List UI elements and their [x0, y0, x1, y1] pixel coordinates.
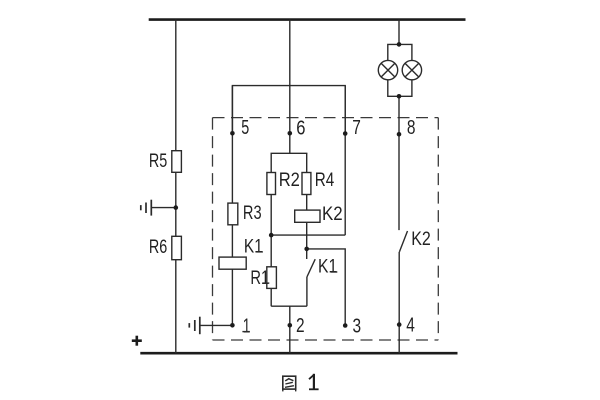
svg-text:K1: K1: [318, 257, 337, 278]
resistor R3: [228, 203, 238, 225]
junction dot R2/R1 node: [269, 233, 274, 238]
wire R2/R1 branch: [270, 153, 272, 306]
caption figure glyph tu: [283, 376, 296, 391]
wire terminal-5 branch down to terminal 1: [231, 86, 233, 326]
resistor R2: [267, 173, 276, 195]
wire lamp parallel frame bottom: [388, 80, 412, 97]
svg-text:8: 8: [407, 117, 416, 139]
resistor R6: [172, 236, 182, 259]
terminal 3 dot: [343, 323, 348, 328]
junction dot lamp top: [397, 42, 402, 47]
terminal 7 dot: [343, 131, 348, 136]
junction dot R5/R6 ground tap: [174, 205, 179, 210]
svg-text:R3: R3: [243, 203, 262, 224]
terminal 1 dot: [230, 323, 235, 328]
resistor R1: [267, 267, 277, 289]
wire split header R2/R4: [271, 152, 308, 154]
svg-text:3: 3: [353, 315, 362, 337]
wire lamp parallel frame: [388, 44, 412, 60]
switch K1 blade: [307, 259, 315, 277]
wire horizontal R1-junction to 7 branch: [271, 234, 345, 236]
ground symbol upper: [141, 200, 176, 216]
wire lamp branch from top bus: [398, 20, 400, 45]
wire terminal-7 branch: [344, 86, 346, 236]
wire terminal-6 branch from top bus: [289, 20, 291, 154]
junction dot K1 contact top: [304, 247, 309, 252]
label terminal 1: [242, 315, 250, 337]
svg-text:7: 7: [352, 117, 361, 139]
svg-text:R6: R6: [149, 237, 167, 258]
resistor R4: [302, 173, 311, 195]
svg-text:K2: K2: [322, 204, 343, 225]
svg-text:2: 2: [296, 315, 305, 337]
lamp H1: [378, 60, 397, 79]
wire R4/K2-coil branch: [306, 153, 308, 259]
terminal 4 dot: [397, 322, 402, 327]
ground symbol lower: [189, 317, 232, 335]
bottom supply bus: [140, 352, 457, 355]
svg-text:R2: R2: [279, 170, 300, 191]
terminal 8 dot: [397, 132, 402, 137]
label K1 coil: [244, 237, 263, 258]
lamp H2: [402, 60, 421, 79]
terminal 2 dot: [288, 323, 293, 328]
resistor R5: [172, 151, 182, 173]
wire connector 5-7 above box: [232, 86, 345, 134]
svg-text:1: 1: [243, 315, 251, 337]
wire K1 contact bottom lead: [306, 277, 308, 306]
label plus polarity: [132, 336, 142, 346]
top supply bus: [149, 18, 466, 21]
svg-text:R4: R4: [315, 170, 335, 191]
junction dot lamp bottom: [397, 94, 402, 99]
wire bottom inner horizontal: [271, 305, 307, 307]
wire left branch R5/R6: [175, 20, 177, 354]
wire K2 contact bottom to terminal 4 and bottom bus: [398, 252, 400, 353]
svg-text:6: 6: [296, 117, 305, 139]
terminal 5 dot: [230, 131, 235, 136]
wire K1-contact top to terminal 3: [307, 249, 346, 326]
svg-text:K1: K1: [244, 237, 263, 258]
caption figure number 1: [309, 374, 319, 390]
terminal 6 dot: [288, 131, 293, 136]
svg-text:K2: K2: [411, 229, 431, 250]
dashed relay enclosure box: [213, 118, 439, 340]
wire middle drop to terminal 2 and bottom bus: [289, 306, 291, 353]
svg-text:4: 4: [406, 315, 415, 337]
wire lamp bottom to terminal 8 and K2 contact: [398, 96, 400, 230]
relay coil K2: [295, 210, 320, 222]
svg-text:R1: R1: [250, 268, 269, 289]
relay coil K1: [219, 257, 246, 269]
label K1 switch: [318, 257, 337, 278]
switch K2 blade: [399, 231, 407, 252]
svg-text:5: 5: [241, 117, 249, 139]
svg-text:R5: R5: [149, 151, 167, 172]
label R1: [250, 268, 269, 289]
